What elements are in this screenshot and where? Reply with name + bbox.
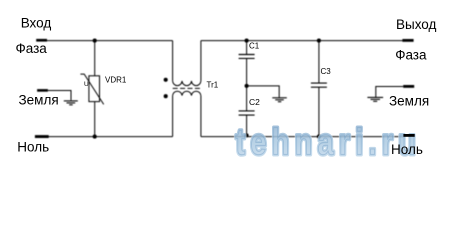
svg-text:Выход: Выход bbox=[396, 17, 437, 32]
terminal L-earth bbox=[37, 89, 48, 92]
wire mid ground tap bbox=[247, 86, 280, 98]
svg-text:Фаза: Фаза bbox=[16, 41, 48, 56]
wire right earth lead bbox=[376, 87, 403, 98]
node junction C3 bottom bbox=[317, 135, 321, 139]
svg-text:C2: C2 bbox=[249, 97, 260, 107]
transformer Tr1 secondary winding arcs bbox=[173, 91, 201, 95]
svg-text:VDR1: VDR1 bbox=[105, 76, 127, 85]
varistor VDR1 diagonal stroke bbox=[80, 74, 103, 104]
ground symbol mid (C1/C2 tap) bbox=[272, 98, 287, 102]
svg-text:Фаза: Фаза bbox=[395, 47, 427, 62]
wire top phase right segment bbox=[201, 40, 403, 42]
transformer Tr1 primary winding arcs bbox=[173, 81, 201, 86]
node junction VDR top bbox=[93, 39, 97, 43]
transformer Tr1 primary right vertical bbox=[200, 41, 202, 81]
transformer Tr1 primary left vertical bbox=[172, 41, 174, 81]
capacitor C1 plates bbox=[239, 55, 255, 59]
svg-text:C1: C1 bbox=[249, 42, 260, 51]
wire C3 bottom lead bbox=[318, 87, 320, 136]
wire VDR branch bottom bbox=[94, 102, 96, 137]
wire C1 top lead bbox=[246, 41, 248, 55]
svg-text:U: U bbox=[84, 81, 89, 88]
terminal R-earth bbox=[403, 85, 414, 88]
wire top phase left segment bbox=[47, 40, 173, 42]
svg-text:C3: C3 bbox=[321, 67, 332, 76]
capacitor C2 plates bbox=[239, 111, 255, 115]
svg-text:Земля: Земля bbox=[389, 93, 429, 108]
svg-text:Tr1: Tr1 bbox=[207, 81, 219, 90]
wire C2 bottom lead bbox=[246, 115, 248, 137]
transformer Tr1 polarity dot lower bbox=[164, 94, 168, 98]
terminal L-phase bbox=[36, 39, 47, 42]
varistor VDR1 body bbox=[89, 76, 100, 102]
ground symbol left input bbox=[64, 101, 78, 105]
wire bottom neutral left segment bbox=[49, 136, 173, 138]
svg-text:Вход: Вход bbox=[21, 15, 52, 30]
ground symbol right output bbox=[367, 97, 383, 101]
node junction C1 top bbox=[245, 39, 249, 43]
transformer Tr1 secondary left vertical bbox=[172, 96, 174, 137]
node junction C2 bottom bbox=[245, 133, 249, 137]
node junction C1-C2 mid bbox=[245, 84, 249, 88]
svg-text:Ноль: Ноль bbox=[17, 140, 49, 155]
terminal R-neutral bbox=[403, 134, 414, 137]
terminal R-phase bbox=[402, 39, 413, 42]
wire left earth lead bbox=[48, 91, 71, 101]
watermark tehnari.ru bbox=[236, 122, 422, 163]
svg-text:Земля: Земля bbox=[19, 93, 59, 108]
wire C1-C2 middle lead bbox=[246, 58, 248, 111]
transformer Tr1 secondary right vertical bbox=[200, 96, 202, 137]
wire bottom neutral right segment bbox=[201, 136, 404, 138]
wire C3 top lead bbox=[318, 41, 320, 84]
node junction C3 top bbox=[317, 39, 321, 43]
capacitor C3 plates bbox=[311, 83, 327, 87]
transformer Tr1 polarity dot upper bbox=[164, 78, 168, 82]
transformer Tr1 core dashes bbox=[173, 87, 201, 89]
wire VDR branch top bbox=[94, 41, 96, 76]
terminal L-neutral bbox=[35, 135, 49, 138]
node junction VDR bottom bbox=[93, 135, 97, 139]
svg-text:Ноль: Ноль bbox=[391, 142, 423, 157]
